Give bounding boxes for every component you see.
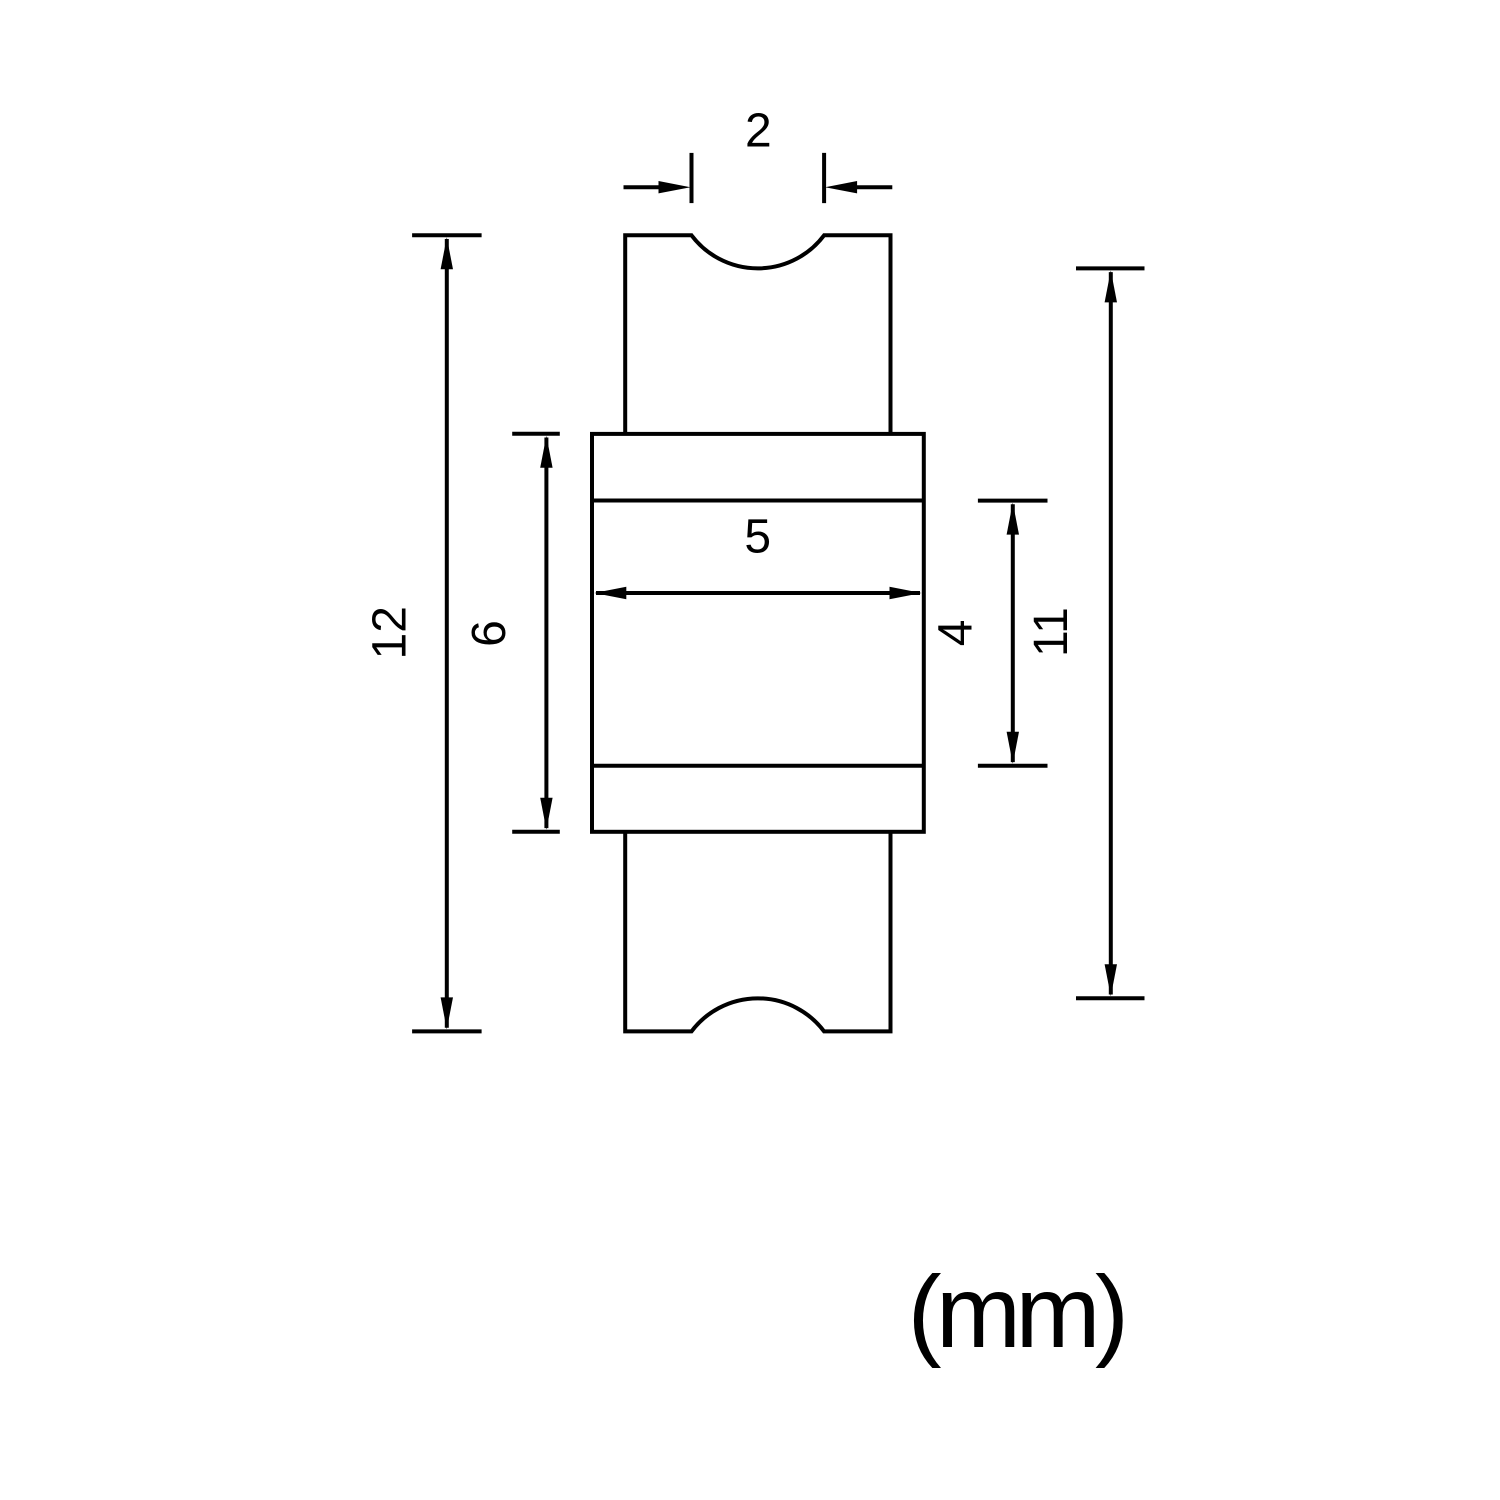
dimension 12: top arrowhead pointing up [441,237,453,269]
dimension 6: top arrowhead pointing up [540,436,552,468]
dimension 2: left leader shaft [624,185,663,189]
dimension 4: top extension tick [978,499,1048,503]
dimension 12: label (rotated) [364,606,417,659]
dimension 12: bottom extension tick [412,1029,482,1033]
flange lower divider line [592,764,924,768]
part outline: top stem with concave groove [625,235,890,434]
part outline: center flange rectangle [592,434,924,832]
svg-text:4: 4 [929,620,982,647]
dimension 11: top arrowhead pointing up [1105,270,1117,302]
dimension 11: bottom arrowhead pointing down [1105,964,1117,996]
dimension 6: bottom extension tick [512,830,560,834]
flange upper divider line [592,499,924,503]
dimension 4: bottom extension tick [978,764,1048,768]
dimension 4: bottom arrowhead pointing down [1007,732,1019,764]
dimension 2: left extension tick [690,153,694,203]
svg-text:2: 2 [745,105,772,158]
dimension 12: top extension tick [412,233,482,237]
dimension 11: shaft [1109,272,1113,994]
dimension 2: right leader shaft [854,185,893,189]
dimension 4: shaft [1011,504,1015,762]
dimension 6: shaft [544,438,548,829]
dimension 4: label (rotated) [929,620,982,647]
dimension 6: label (rotated) [463,620,516,647]
dimension 11: bottom extension tick [1076,996,1145,1000]
dimension 5: shaft [596,591,920,595]
svg-text:(mm): (mm) [908,1255,1124,1369]
dimension 5: right arrowhead pointing right [890,587,922,599]
svg-text:6: 6 [463,620,516,647]
dimension 6: top extension tick [512,432,560,436]
dimension 4: top arrowhead pointing up [1007,503,1019,535]
dimension 5: left arrowhead pointing left [594,587,626,599]
dimension 11: label (rotated) [1025,607,1078,657]
dimension 12: bottom arrowhead pointing down [441,997,453,1029]
dimension 12: shaft [445,239,449,1028]
dimension 6: bottom arrowhead pointing down [540,798,552,830]
svg-text:11: 11 [1025,607,1078,657]
dimension 2: right extension tick [822,153,826,203]
svg-text:5: 5 [744,510,771,563]
dimension 2: left arrowhead pointing right [659,181,691,193]
svg-text:12: 12 [364,606,417,659]
dimension 2: right arrowhead pointing left [825,181,857,193]
dimension 11: top extension tick [1076,266,1145,270]
part outline: bottom stem with concave groove [625,832,890,1032]
